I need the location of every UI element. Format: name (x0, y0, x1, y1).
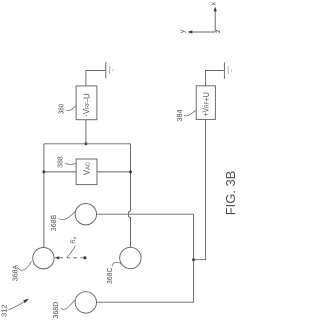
wire: box 380 top to ground (left) (86, 71, 105, 86)
svg-text:x: x (211, 2, 218, 6)
wire: rod 368B to right bus (97, 213, 194, 215)
svg-text:368B: 368B (51, 214, 58, 231)
dashed dimension arrow Ro (field radius) (55, 256, 84, 259)
leader line for 384 (184, 110, 196, 116)
leader line for Ro (67, 246, 75, 257)
svg-text:z: z (215, 29, 222, 33)
svg-text:FIG. 3B: FIG. 3B (223, 171, 238, 216)
junction at VAC left (42, 170, 45, 173)
junction at bus and 380 wire (84, 142, 87, 145)
wire: right bus vertical (B/D/384 net) (193, 214, 195, 302)
svg-text:380: 380 (59, 104, 66, 115)
wire: bottom run to rod 368D (97, 301, 194, 303)
svg-text:-VRF-U: -VRF-U (82, 93, 91, 117)
rod electrode 368C (circle) (120, 247, 141, 268)
svg-text:384: 384 (177, 109, 184, 121)
wire: box 384 bottom down to junction (194, 119, 206, 259)
leader line for 368D (61, 300, 75, 309)
wire: right vertical to rod 368C (with hop over B-wire) (128, 144, 130, 248)
svg-text:+VRF+U: +VRF+U (202, 92, 211, 117)
voltage source box 380 (-VRF-U) (76, 86, 97, 120)
leader line for 368C (112, 262, 122, 266)
wire: box 380 bottom down to bus (85, 120, 87, 144)
rod electrode 368D (circle) (75, 292, 96, 313)
wire: left vertical to rod 368A (43, 144, 45, 248)
wire: VAC right lead (97, 171, 131, 173)
svg-text:368C: 368C (107, 267, 114, 284)
AC source box 388 (VAC) (76, 159, 97, 185)
rod electrode 368B (circle) (75, 204, 96, 225)
junction at VAC right (129, 170, 132, 173)
ground symbol (right) (224, 62, 231, 79)
wire: horizontal bus between rod A line and rod C line (44, 143, 131, 145)
axes indicator: x-axis arrow (up) (214, 7, 217, 32)
rod electrode 368A (circle) (33, 248, 54, 269)
ground symbol (left) (106, 62, 113, 78)
arrow for 312 (8, 299, 29, 310)
leader line for 380 (66, 105, 76, 110)
svg-text:388: 388 (58, 156, 65, 168)
svg-text:Ro: Ro (71, 236, 77, 243)
junction at 384 branch (192, 258, 195, 261)
wire: VAC left lead (44, 171, 76, 173)
svg-text:y: y (180, 29, 187, 33)
axes indicator: y-axis arrow (left) (188, 30, 216, 33)
wire: box 384 top to ground (right) (206, 71, 224, 86)
voltage source box 384 (+VRF+U) (196, 86, 215, 120)
svg-text:368A: 368A (12, 264, 19, 281)
svg-text:368D: 368D (53, 302, 60, 319)
leader line for 388 (65, 163, 76, 164)
svg-text:VAC: VAC (83, 162, 92, 175)
leader line for 368B (59, 211, 76, 219)
node: quadrupole centre point (83, 256, 86, 259)
svg-text:312: 312 (0, 304, 9, 317)
leader line for 368A (17, 261, 31, 270)
